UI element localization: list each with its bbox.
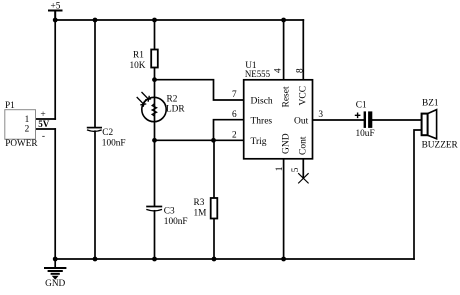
junction ground rail / GND symbol bbox=[53, 257, 58, 262]
junction node A (R1/LDR/Disch) bbox=[152, 77, 157, 82]
wire pin8 drop to VCC bbox=[302, 20, 304, 80]
svg-text:C3: C3 bbox=[164, 206, 175, 216]
svg-text:LDR: LDR bbox=[166, 104, 185, 114]
svg-text:5: 5 bbox=[291, 167, 301, 172]
svg-text:Trig: Trig bbox=[251, 137, 267, 147]
svg-text:Disch: Disch bbox=[251, 97, 273, 107]
svg-text:100nF: 100nF bbox=[102, 138, 126, 148]
wire C3 branch upper bbox=[154, 140, 156, 205]
junction top rail / C2 bbox=[93, 18, 98, 23]
svg-text:1M: 1M bbox=[194, 209, 207, 219]
svg-text:Out: Out bbox=[294, 116, 309, 126]
wire R3 branch lower bbox=[213, 219, 215, 260]
capacitor C3 bbox=[146, 207, 162, 211]
svg-text:P1: P1 bbox=[5, 101, 15, 111]
svg-text:BZ1: BZ1 bbox=[422, 99, 439, 109]
wire P1 pin2 stub bbox=[36, 128, 56, 130]
svg-text:C2: C2 bbox=[102, 128, 113, 138]
wire buzzer pin2 to ground rail bbox=[414, 130, 422, 259]
wire U1 GND pin drop bbox=[283, 159, 285, 259]
svg-text:100nF: 100nF bbox=[164, 217, 188, 227]
wire trig net bbox=[155, 139, 244, 141]
resistor R1 bbox=[151, 50, 158, 68]
wire U1 Cont pin stub bbox=[302, 159, 304, 178]
svg-text:GND: GND bbox=[282, 133, 292, 154]
svg-text:Thres: Thres bbox=[251, 116, 273, 126]
resistor R3 bbox=[211, 198, 218, 219]
svg-text:VCC: VCC bbox=[298, 86, 308, 106]
svg-text:4: 4 bbox=[273, 68, 283, 73]
wire C2 branch upper bbox=[94, 20, 96, 127]
wire pin4 drop to Reset bbox=[283, 20, 285, 80]
IC U1 NE555 body bbox=[244, 80, 313, 159]
svg-text:3: 3 bbox=[318, 110, 323, 120]
wire C2 branch lower bbox=[94, 131, 96, 259]
wire Out net (pin3 to C1) bbox=[313, 119, 364, 121]
junction ground rail / C2 bbox=[93, 257, 98, 262]
wire R1 branch upper bbox=[154, 20, 156, 50]
svg-text:2: 2 bbox=[25, 125, 30, 135]
svg-text:+5: +5 bbox=[51, 2, 61, 12]
svg-text:10K: 10K bbox=[130, 61, 146, 71]
svg-text:2: 2 bbox=[232, 131, 237, 141]
svg-text:-: - bbox=[42, 132, 45, 142]
svg-text:R2: R2 bbox=[167, 95, 178, 105]
wire bottom ground rail bbox=[55, 258, 414, 260]
wire R3 branch upper bbox=[213, 140, 215, 198]
svg-text:7: 7 bbox=[232, 90, 237, 100]
svg-text:1: 1 bbox=[25, 115, 30, 125]
wire P1 pin1 stub bbox=[36, 118, 56, 120]
ground symbol bbox=[44, 259, 66, 279]
junction ground rail / R3 bbox=[212, 257, 217, 262]
svg-text:R1: R1 bbox=[133, 51, 144, 61]
junction top rail / left vertical bbox=[53, 18, 58, 23]
svg-text:Cont: Cont bbox=[299, 136, 309, 155]
connector P1 bbox=[5, 101, 39, 148]
junction trig / LDR / C3 bbox=[152, 138, 157, 143]
wire left vertical lower (P1 pin2 to ground rail) bbox=[54, 129, 56, 259]
wire node A to pin7 Disch bbox=[155, 80, 244, 100]
svg-text:GND: GND bbox=[45, 279, 65, 289]
wire pin6 Thres to trig node bbox=[214, 120, 244, 141]
svg-text:Reset: Reset bbox=[282, 86, 292, 107]
wire left vertical upper (rail to P1 pin1) bbox=[54, 20, 56, 119]
junction top rail / R1 bbox=[152, 18, 157, 23]
buzzer BZ1 bbox=[422, 110, 437, 139]
junction ground rail / U1 GND bbox=[281, 257, 286, 262]
junction trig / thres / R3 bbox=[211, 138, 216, 143]
power +5 symbol bbox=[49, 11, 62, 21]
svg-text:6: 6 bbox=[232, 110, 237, 120]
svg-text:POWER: POWER bbox=[5, 138, 38, 148]
no-connect cross pin 5 bbox=[298, 173, 308, 183]
photoresistor R2 LDR bbox=[137, 92, 167, 122]
svg-text:NE555: NE555 bbox=[245, 69, 271, 79]
svg-text:10uF: 10uF bbox=[356, 129, 375, 139]
svg-text:1: 1 bbox=[275, 166, 285, 171]
wire top +5 rail bbox=[55, 19, 303, 21]
capacitor C2 bbox=[87, 128, 102, 132]
wire C1 to buzzer bbox=[372, 119, 421, 121]
wire C3 branch lower bbox=[154, 211, 156, 259]
svg-text:R3: R3 bbox=[194, 198, 205, 208]
svg-text:5V: 5V bbox=[38, 119, 50, 129]
wire LDR branch (through R2) bbox=[154, 80, 156, 141]
svg-text:C1: C1 bbox=[356, 101, 367, 111]
junction ground rail / C3 bbox=[152, 257, 157, 262]
svg-text:BUZZER: BUZZER bbox=[422, 141, 459, 151]
junction top rail / pin4 bbox=[281, 18, 286, 23]
capacitor C1 (polarized) bbox=[355, 111, 373, 128]
svg-text:8: 8 bbox=[295, 68, 305, 73]
wire R1 to node A bbox=[154, 68, 156, 80]
